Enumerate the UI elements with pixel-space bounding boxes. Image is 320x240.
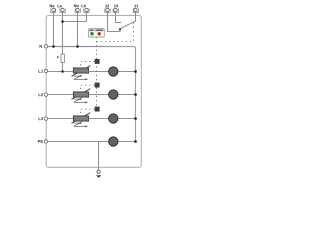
mech dash to RV3 bbox=[81, 109, 95, 115]
wire L2 bus bbox=[46, 94, 108, 96]
node F1-N' bbox=[134, 70, 136, 72]
terminal PE bbox=[38, 140, 48, 143]
wire PE bus bbox=[46, 141, 108, 143]
mech link dash from blade bbox=[133, 23, 135, 42]
varistor RV2 bbox=[72, 89, 91, 104]
terminal 11 bbox=[133, 5, 138, 13]
mech dash to RV2 bbox=[81, 85, 95, 91]
terminal Nb bbox=[74, 4, 81, 12]
spark gap F3 bbox=[109, 114, 118, 123]
wire N bus bbox=[46, 46, 104, 48]
disconnect actuator L3 bbox=[95, 107, 100, 112]
enclosure outline bbox=[46, 15, 141, 167]
node F4-N' bbox=[134, 140, 136, 142]
status indicator U1 bbox=[88, 29, 104, 37]
wire fuse to L1 bus bbox=[62, 62, 64, 71]
varistor RV3 bbox=[72, 113, 91, 128]
wire gap F4 to N' bus bbox=[118, 141, 135, 143]
junction La-Lb bbox=[61, 20, 64, 23]
terminal N bbox=[40, 45, 48, 48]
wire gap F1 to N' bus bbox=[118, 71, 135, 73]
label F bbox=[57, 56, 59, 59]
spark gap F4 N-PE bbox=[109, 137, 118, 146]
indicator header band bbox=[89, 29, 103, 31]
N' bus (N to PE gap common rail) bbox=[46, 47, 135, 142]
wire RV1 to gap F1 bbox=[89, 71, 109, 73]
junction fuse-L1 bbox=[61, 70, 64, 73]
wire gap F3 to N' bus bbox=[118, 118, 135, 120]
indicator micro text bbox=[90, 30, 93, 31]
varistor RV1 bbox=[72, 66, 91, 81]
wire Nb drop to N bus bbox=[77, 12, 79, 47]
remote contact 14 wire bbox=[116, 12, 122, 23]
mech link dash horizontal bbox=[97, 41, 134, 43]
wire Na drop to N bus bbox=[53, 12, 55, 47]
ground symbol bbox=[96, 175, 101, 178]
wire La drop to fuse bbox=[62, 12, 64, 55]
mech link dash vertical spine bbox=[96, 37, 98, 112]
remote contact 11 wire and blade bbox=[120, 12, 136, 29]
junction Nb-N bbox=[76, 45, 79, 48]
junction Na-N bbox=[52, 45, 55, 48]
wire L3 bus bbox=[46, 118, 108, 120]
wire L1 bus bbox=[46, 71, 108, 73]
terminal Lb bbox=[81, 4, 89, 12]
mech dash to RV1 bbox=[81, 62, 95, 68]
node F2-N' bbox=[134, 93, 136, 95]
terminal L3 bbox=[39, 117, 48, 120]
terminal 12 bbox=[105, 4, 110, 12]
LED red bbox=[98, 32, 101, 35]
wire Lb drop bbox=[86, 12, 88, 22]
node F3-N' bbox=[134, 117, 136, 119]
disconnect actuator L2 bbox=[95, 83, 100, 88]
spark gap F2 bbox=[109, 90, 118, 99]
remote contact 12 wire bbox=[108, 12, 121, 32]
terminal 14 bbox=[113, 5, 118, 13]
ground terminal bbox=[97, 170, 100, 173]
terminal Na bbox=[50, 5, 56, 13]
wire gap F2 to N' bus bbox=[118, 94, 135, 96]
terminal L1 bbox=[39, 69, 48, 72]
LED green bbox=[91, 32, 94, 35]
wire PE drop to ground bbox=[98, 142, 100, 171]
terminal L2 bbox=[39, 93, 48, 96]
terminal La bbox=[58, 5, 66, 13]
wire La-Lb tie bbox=[63, 21, 87, 23]
disconnect actuator L1 bbox=[95, 59, 100, 64]
spark gap F1 bbox=[109, 67, 118, 76]
fuse F bbox=[61, 54, 64, 62]
node blade-12 bbox=[119, 28, 121, 30]
